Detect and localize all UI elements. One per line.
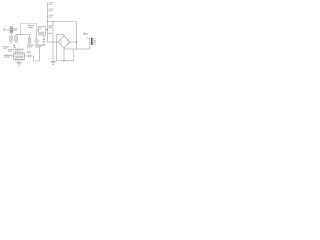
wire U2 right pin [46,29,48,31]
wire transformer pin down [89,45,91,49]
wire top horizontal bus [48,21,77,23]
label under C2 [35,44,45,45]
transformer T1 coil [94,39,97,44]
bridge rectifier B1 [58,36,70,48]
label above C3 [27,52,32,53]
label J1 right [13,28,17,29]
label smudge near V+ [48,25,52,26]
transformer T1 core [91,38,93,45]
wire R2 top over to R3 [16,34,30,38]
label above IC1 [15,49,24,51]
IC IC1 [14,53,25,60]
wire right U leg [73,49,75,61]
label under R3 [27,44,34,45]
wire U2 bottom to C2 [43,35,45,40]
ground G1 [50,61,55,64]
label left of IC1 [4,55,12,56]
junction dot D [63,48,64,49]
wire main vertical net V+ [47,3,49,43]
wire to bridge top vertex [57,33,65,35]
wire Q1 collector [36,30,38,39]
wire ground branch vertical [52,22,54,62]
wire top-vertex net vertical [56,34,58,60]
power flag F1 [47,2,49,5]
label LED [3,46,8,47]
wire bridge bottom vertex down [63,48,65,61]
ground G2 [16,63,22,66]
wire transformer left lead [86,38,90,45]
power flag F3 [48,15,50,17]
label T1 [83,33,88,35]
wire IC1 right pin to C3 [25,55,29,57]
LED D2 arrows [15,41,19,45]
resistor R3 [28,38,31,43]
label D1 [28,25,34,26]
wire bottom horizontal run [57,60,74,62]
wire AC horizontal to transformer [64,48,90,50]
transistor Q1 [35,39,39,43]
wire IC1 left pin [11,55,14,57]
power flag F2 [48,9,50,11]
label AC left [3,29,6,30]
wire right vertical drop [76,22,78,50]
IC U2 [39,27,46,35]
junction dot U2 pin [47,29,48,30]
connector J1 [10,27,13,33]
wire U2 left pin [37,29,39,31]
wire R2 bottom lead [15,41,17,43]
label smudge near bridge left [48,33,52,34]
wire AC input tick [7,29,11,31]
junction dot C [52,21,53,22]
junction dot B [63,60,64,61]
wire faint route to U2 left pin [21,23,37,34]
junction dot A [76,41,77,42]
LED D2 body [13,45,16,47]
wire to bridge left vertex [48,41,59,43]
wire bridge right vertex to drop [70,41,77,43]
wire C2 bottom lead [43,42,45,45]
capacitor C2 [43,40,46,42]
junction dot E [47,21,48,22]
wire R3 bottom lead [29,43,31,45]
capacitor C3 [29,54,31,58]
resistor R1 [10,36,13,41]
wire R1 bottom lead [10,41,12,45]
wire C3 to riser [31,48,40,62]
wire IC1 ground stem [18,60,20,63]
resistor R2 [15,36,18,41]
wire J1 to R1 [11,33,13,36]
